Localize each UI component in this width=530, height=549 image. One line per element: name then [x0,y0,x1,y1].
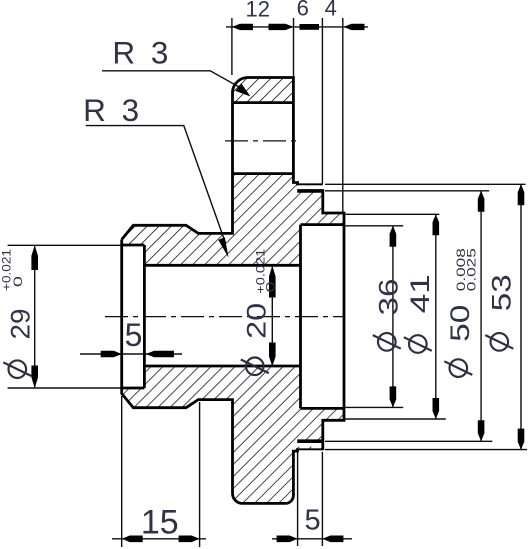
svg-text:20: 20 [241,303,271,339]
svg-text:R 3: R 3 [112,34,168,70]
svg-text:5: 5 [125,317,143,353]
svg-text:50: 50 [445,305,475,342]
svg-text:12: 12 [246,0,270,22]
svg-text:15: 15 [141,504,179,542]
svg-text:R 3: R 3 [83,92,139,128]
svg-text:53: 53 [486,274,516,311]
svg-text:6: 6 [297,0,309,21]
svg-text:5: 5 [305,505,321,537]
svg-text:4: 4 [325,0,337,21]
svg-text:0: 0 [263,281,277,293]
svg-text:36: 36 [374,279,404,316]
svg-text:0.025: 0.025 [465,248,479,291]
svg-text:41: 41 [405,274,435,313]
svg-text:29: 29 [5,309,35,340]
svg-text:0: 0 [11,276,25,288]
